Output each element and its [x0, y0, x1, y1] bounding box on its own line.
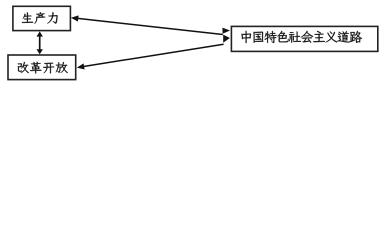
double arrow: 生产力 ↔ 中国特色社会主义道路 (slanting down to the right): [71, 15, 230, 34]
label: 生产力: [22, 12, 58, 24]
label: 改革开放: [18, 62, 68, 74]
box: 改革开放 (reform and opening up): [8, 55, 76, 80]
double arrow: 生产力 ↔ 改革开放 (vertical, arrowheads both ends): [37, 31, 43, 54]
double arrow: 改革开放 ↔ 中国特色社会主义道路 (slanting up to the right): [77, 35, 230, 70]
box: 中国特色社会主义道路: [231, 26, 377, 51]
box: 生产力 (productivity): [13, 6, 71, 30]
label: 中国特色社会主义道路: [241, 31, 362, 43]
